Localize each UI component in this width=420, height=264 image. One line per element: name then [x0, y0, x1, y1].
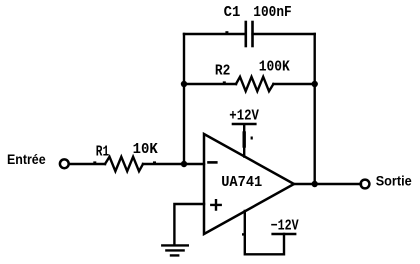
svg-text:C1: C1 [224, 5, 241, 21]
input terminal circle [60, 159, 69, 168]
pin thick segment on +12V stem [242, 133, 245, 146]
svg-text:+12V: +12V [229, 109, 259, 125]
node junction dot right at R2 branch [312, 81, 318, 87]
svg-text:R2: R2 [215, 63, 231, 79]
wire +12V stem to op-amp top [243, 125, 245, 157]
op-amp non-inverting pin plus sign [211, 200, 220, 209]
wire left feedback vertical [183, 34, 185, 164]
svg-text:UA741: UA741 [221, 175, 262, 191]
svg-text:−12V: −12V [271, 219, 299, 235]
wire R2 branch left [184, 83, 236, 85]
svg-text:100nF: 100nF [253, 5, 291, 21]
wire input to R1 [69, 163, 105, 165]
pin nub R2 left [223, 81, 226, 83]
wire right feedback vertical [314, 34, 316, 184]
wire non-inverting input to ground [174, 204, 204, 245]
resistor R1 [105, 157, 143, 171]
node junction dot at output [312, 181, 318, 187]
output terminal circle [361, 180, 370, 189]
wire R1 to op-amp inverting input [143, 163, 204, 165]
pin nub R1 right [153, 161, 156, 163]
ground [162, 245, 188, 255]
svg-text:100K: 100K [259, 60, 290, 76]
pin nub R1 left [93, 161, 96, 163]
wire R2 branch right [273, 83, 314, 85]
node junction dot left at R2 branch [181, 81, 187, 87]
op-amp inverting pin minus sign [209, 161, 217, 164]
svg-text:10K: 10K [133, 142, 158, 158]
node junction dot at inverting input [181, 161, 187, 167]
pin nub -12V [242, 233, 244, 235]
resistor R2 [236, 77, 273, 91]
wire op-amp output [294, 183, 361, 185]
capacitor C1 [246, 22, 253, 46]
svg-text:Entrée: Entrée [7, 151, 46, 167]
svg-text:Sortie: Sortie [376, 172, 412, 188]
power -12V supply bar [273, 233, 296, 235]
svg-text:R1: R1 [96, 144, 110, 160]
wire top branch C1 to right vertical [253, 33, 315, 35]
op-amp U1 UA741 triangle [204, 134, 294, 234]
pin nub C1 left [225, 31, 228, 33]
wire -12V stem from op-amp bottom [245, 211, 284, 254]
wire top branch left to C1 [184, 33, 246, 35]
power +12V supply bar [233, 123, 256, 125]
pin nub +12V [251, 137, 253, 140]
